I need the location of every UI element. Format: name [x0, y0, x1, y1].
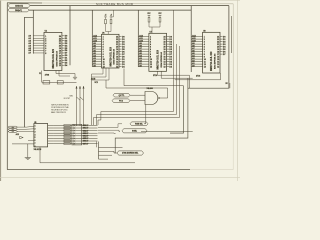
sheet border	[6, 3, 8, 170]
ground symbol G1	[73, 76, 77, 78]
svg-text:+5: +5	[110, 14, 112, 16]
switch SW1 verticals	[76, 86, 78, 126]
wire: IC2 left bus	[91, 10, 93, 67]
wire: IC2 to switch block	[91, 74, 93, 125]
IC U6 box	[102, 34, 120, 68]
scan right page edge	[236, 0, 238, 181]
svg-text:BK3 27: BK3 27	[83, 133, 89, 135]
scan top edge	[0, 0, 240, 2]
bottom branch vertical	[98, 142, 100, 160]
matrix outputs	[98, 124, 122, 128]
resistor R2	[57, 81, 63, 84]
switch pack box	[72, 124, 82, 145]
wire: IC4 right bus wrap	[188, 6, 229, 89]
net flag below gate	[130, 122, 148, 126]
wires flags to fan	[18, 126, 27, 128]
svg-text:BK6 27: BK6 27	[83, 141, 89, 143]
IC2 right pins	[119, 36, 122, 38]
svg-text:MM2716-10JL 829: MM2716-10JL 829	[53, 48, 55, 68]
wire: address bus top	[30, 5, 229, 7]
wire: data bus top	[29, 9, 191, 11]
svg-text:N DPDT: N DPDT	[64, 98, 70, 100]
svg-text:BK5 27: BK5 27	[83, 138, 89, 140]
wire: y85.7 cross line	[124, 85, 184, 87]
svg-text:74LS00: 74LS00	[147, 87, 153, 90]
net flag into gate B	[112, 99, 130, 103]
svg-text:MM2716-10JL 829: MM2716-10JL 829	[211, 51, 213, 71]
wire: x183.5 long vertical	[170, 86, 184, 133]
svg-text:8: 8	[45, 53, 46, 55]
ground under decoder	[27, 144, 29, 158]
IC1 bottom pins / ground	[56, 71, 75, 78]
svg-text:+5: +5	[105, 14, 107, 16]
svg-text:13: 13	[150, 66, 152, 68]
svg-text:8264 EPROM A6: 8264 EPROM A6	[213, 53, 216, 69]
svg-text:2716: 2716	[196, 75, 200, 77]
net flag F	[122, 129, 147, 133]
wire: IC4 wrap y79.8	[175, 73, 221, 80]
svg-text:DB(0:7): DB(0:7)	[15, 10, 22, 12]
svg-text:A13: A13	[16, 133, 19, 136]
scan bottom page edge	[0, 177, 240, 179]
svg-text:12: 12	[59, 65, 61, 67]
svg-text:ROM SEL: ROM SEL	[135, 123, 143, 125]
wire: drop to IC1 left bus + jog	[25, 10, 34, 127]
svg-text:MM2716-10JL 829: MM2716-10JL 829	[110, 46, 112, 66]
fan into decoder	[26, 126, 34, 127]
decoder right pins	[48, 124, 54, 126]
IC3 right pins	[167, 36, 170, 38]
wire: IC1 left bus	[32, 17, 34, 53]
svg-text:12: 12	[217, 66, 219, 68]
decoder U5 box	[34, 124, 48, 147]
SW1 pole diagonals	[77, 97, 81, 100]
wire: x187.9 long vertical	[115, 78, 188, 153]
wire to gate inputs	[130, 94, 145, 96]
svg-text:2708: 2708	[45, 75, 49, 77]
svg-text:U7: U7	[150, 32, 152, 34]
svg-text:Q3 TTL: Q3 TTL	[119, 95, 125, 97]
bottom branches	[99, 146, 123, 148]
svg-text:AB(0:15): AB(0:15)	[15, 4, 23, 7]
svg-text:AND 2708 PIN 21: AND 2708 PIN 21	[51, 111, 66, 114]
wire from decoder bottom long	[40, 147, 135, 163]
svg-text:C1: C1	[39, 73, 41, 75]
wire: IC3 bottom bundle b	[161, 71, 193, 78]
svg-text:8264 EPROM A6: 8264 EPROM A6	[113, 48, 116, 64]
svg-text:BK0 27: BK0 27	[83, 125, 89, 127]
SW1 arrowheads	[76, 86, 78, 88]
inverter triangle	[20, 136, 24, 138]
resistor R1	[43, 81, 50, 84]
wire: drop x113.4	[112, 10, 114, 17]
svg-text:BK2 27: BK2 27	[83, 130, 89, 132]
wire: gate output	[160, 97, 168, 99]
NAND gate U10	[145, 92, 158, 105]
IC U1 (EPROM) box	[44, 32, 62, 70]
bus flag AB(0:15)	[8, 4, 30, 8]
svg-text:U9: U9	[203, 31, 205, 33]
IC1 left pins	[33, 36, 44, 53]
svg-text:2716: 2716	[153, 75, 157, 77]
IC4 left pins	[191, 36, 202, 38]
svg-text:8264 EPROM A6: 8264 EPROM A6	[160, 51, 163, 67]
svg-text:MM2716-10JL 829: MM2716-10JL 829	[158, 49, 160, 69]
IC1 right pins	[62, 35, 64, 37]
switch matrix rows	[54, 124, 98, 126]
wire: IC3 bottom bundle a	[158, 71, 190, 88]
svg-text:BK7 27: BK7 27	[83, 143, 89, 145]
wire: y76 jog	[106, 80, 168, 88]
wire: IC3 left bus	[137, 10, 139, 67]
wire: second right vertical	[230, 16, 232, 53]
svg-text:BK1 27: BK1 27	[83, 128, 89, 130]
mini flags decoder inputs	[8, 126, 18, 128]
net flag D long label	[117, 151, 144, 155]
bus flag DB(0:7)	[8, 8, 29, 12]
decoder enable pins	[12, 143, 34, 145]
IC4 right pins	[220, 36, 223, 38]
IC2 left pins	[92, 36, 101, 38]
svg-text:2708 ADDRESS SEL: 2708 ADDRESS SEL	[122, 152, 138, 155]
svg-text:13: 13	[204, 66, 206, 68]
svg-text:IOSEL: IOSEL	[132, 130, 137, 132]
wire: IC1 right bus	[69, 6, 71, 66]
IC U7 box	[149, 33, 167, 71]
net flag into gate A	[113, 93, 130, 97]
wire: IC2 right drop x124	[123, 69, 125, 86]
wire: IC4 left bus	[190, 6, 192, 72]
IC3 left pins	[138, 36, 149, 38]
scan left edge	[0, 0, 1, 181]
wire: IC3 right loops	[98, 11, 174, 126]
svg-text:12: 12	[164, 66, 166, 68]
wire: IC2 bottom staircase	[92, 68, 104, 74]
svg-text:U6: U6	[102, 33, 104, 35]
svg-text:12: 12	[116, 66, 118, 68]
wire: IC1 bottom to SW	[42, 71, 77, 83]
svg-text:U1: U1	[45, 31, 47, 33]
IC U9 box	[203, 32, 220, 73]
wire: flagF to right vertical	[141, 131, 193, 133]
svg-text:PH 2: PH 2	[119, 100, 123, 102]
wire: flag to gate bottom	[144, 105, 146, 124]
